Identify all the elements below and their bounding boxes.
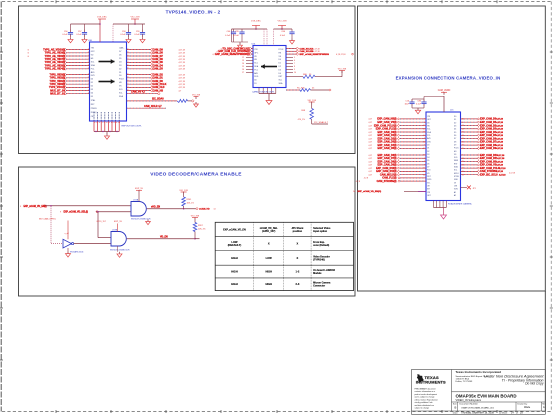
svg-text:4,17: 4,17 xyxy=(368,148,372,150)
svg-text:9: 9 xyxy=(424,119,425,121)
svg-text:10uF: 10uF xyxy=(404,103,409,105)
svg-text:36: 36 xyxy=(462,132,464,134)
svg-text:9: 9 xyxy=(127,68,128,70)
svg-text:4,17,18: 4,17,18 xyxy=(496,160,504,163)
svg-text:XTL: XTL xyxy=(427,182,430,184)
svg-text:4,17,18: 4,17,18 xyxy=(179,59,185,61)
svg-text:D0: D0 xyxy=(119,75,121,77)
svg-text:Sheet: Sheet xyxy=(502,412,508,415)
svg-text:A1: A1 xyxy=(454,191,456,194)
svg-text:4,17,18: 4,17,18 xyxy=(496,147,504,150)
svg-text:D3: D3 xyxy=(119,65,121,67)
svg-text:4,17,18: 4,17,18 xyxy=(179,84,185,86)
svg-text:8: 8 xyxy=(294,66,295,68)
svg-text:nVD_EN: nVD_EN xyxy=(151,206,160,208)
svg-text:PCL: PCL xyxy=(91,68,95,70)
svg-text:16: 16 xyxy=(242,69,244,71)
svg-text:2: 2 xyxy=(88,77,89,79)
svg-text:U17B: U17B xyxy=(112,230,118,232)
svg-text:9: 9 xyxy=(127,89,128,91)
svg-text:4,17: 4,17 xyxy=(368,142,372,144)
svg-text:16: 16 xyxy=(462,138,464,140)
svg-text:2-3: 2-3 xyxy=(296,282,300,286)
svg-text:SN74AHC1G04: SN74AHC1G04 xyxy=(70,250,83,253)
svg-text:SCL: SCL xyxy=(454,170,458,172)
svg-text:GPC: GPC xyxy=(427,195,432,197)
svg-text:4,17,18: 4,17,18 xyxy=(496,144,504,147)
svg-text:D6: D6 xyxy=(119,54,121,56)
svg-text:INV_CAM_OFF(I): INV_CAM_OFF(I) xyxy=(39,218,56,221)
svg-text:9: 9 xyxy=(127,80,128,82)
svg-text:4,17,18: 4,17,18 xyxy=(179,78,185,80)
svg-text:23: 23 xyxy=(462,164,464,166)
svg-text:28: 28 xyxy=(462,135,464,137)
svg-text:VIO_1V8: VIO_1V8 xyxy=(278,21,288,23)
svg-text:VIO_1V8: VIO_1V8 xyxy=(307,100,316,102)
svg-text:39: 39 xyxy=(423,148,425,150)
svg-text:X: X xyxy=(297,242,299,246)
svg-text:39: 39 xyxy=(462,145,464,147)
svg-text:9: 9 xyxy=(127,58,128,60)
svg-text:10K_1%: 10K_1% xyxy=(198,228,206,230)
svg-text:D0: D0 xyxy=(427,144,429,146)
svg-text:19: 19 xyxy=(462,168,464,170)
svg-text:D3: D3 xyxy=(91,89,93,91)
svg-text:4,17: 4,17 xyxy=(368,122,372,124)
svg-text:7: 7 xyxy=(424,145,425,147)
svg-text:input option: input option xyxy=(313,230,328,233)
svg-text:4,17,18: 4,17,18 xyxy=(496,121,504,124)
svg-text:12: 12 xyxy=(462,158,464,160)
svg-text:ROADRUNNER CAMERA: ROADRUNNER CAMERA xyxy=(448,203,472,206)
svg-text:GPC: GPC xyxy=(427,119,432,121)
svg-text:SCL: SCL xyxy=(254,63,258,65)
svg-text:4,17: 4,17 xyxy=(368,125,372,127)
svg-text:2: 2 xyxy=(88,86,89,88)
svg-text:D1: D1 xyxy=(454,119,456,121)
svg-text:EXP_CAM_D9: EXP_CAM_D9 xyxy=(480,147,497,150)
svg-text:VIO_1V8: VIO_1V8 xyxy=(338,68,347,70)
svg-text:10K_1%: 10K_1% xyxy=(187,202,195,204)
svg-text:4,17: 4,17 xyxy=(368,138,372,140)
svg-text:D6: D6 xyxy=(427,163,429,165)
svg-text:PRELIMINARY document: PRELIMINARY document xyxy=(415,387,437,390)
svg-text:4,7,8: 4,7,8 xyxy=(356,181,360,183)
svg-text:9: 9 xyxy=(127,64,128,66)
svg-text:HIGH: HIGH xyxy=(265,282,272,286)
svg-text:CAM_XCLR 4,7: CAM_XCLR 4,7 xyxy=(144,105,162,108)
svg-text:4,17,18: 4,17,18 xyxy=(498,154,506,157)
svg-text:6: 6 xyxy=(294,60,295,62)
svg-text:PCLK: PCLK xyxy=(279,49,285,51)
svg-text:EXP_nCAM_RESET/PWRDN: EXP_nCAM_RESET/PWRDN xyxy=(300,53,330,56)
svg-text:17: 17 xyxy=(423,128,425,130)
svg-text:XTAL: XTAL xyxy=(91,99,96,102)
svg-text:4,17,18: 4,17,18 xyxy=(498,157,506,160)
svg-text:SCL: SCL xyxy=(427,129,431,131)
svg-text:1V8_DEC: 1V8_DEC xyxy=(251,21,261,23)
svg-text:4,17: 4,17 xyxy=(368,129,372,131)
svg-text:4,7,8: 4,7,8 xyxy=(364,178,368,180)
svg-text:4,17: 4,17 xyxy=(368,165,372,167)
svg-text:2: 2 xyxy=(88,93,89,95)
svg-text:D0: D0 xyxy=(254,80,256,82)
svg-text:4,17,18: 4,17,18 xyxy=(179,65,185,67)
svg-text:FLD: FLD xyxy=(119,89,123,91)
svg-text:VD_EN: VD_EN xyxy=(160,236,168,238)
svg-text:4,17,18: 4,17,18 xyxy=(496,131,504,134)
svg-text:D2: D2 xyxy=(279,66,281,68)
svg-text:SCL: SCL xyxy=(119,93,123,95)
svg-text:EXP_5V: EXP_5V xyxy=(135,188,143,190)
svg-text:2: 2 xyxy=(88,83,89,85)
svg-text:2: 2 xyxy=(462,155,463,157)
svg-text:4,17: 4,17 xyxy=(368,158,372,160)
svg-text:4,17,18: 4,17,18 xyxy=(499,173,507,176)
svg-text:D3: D3 xyxy=(279,69,281,71)
svg-text:D5: D5 xyxy=(427,160,429,162)
svg-text:4,17: 4,17 xyxy=(368,168,372,170)
svg-text:19: 19 xyxy=(462,148,464,150)
svg-text:PCLK: PCLK xyxy=(454,148,459,150)
svg-text:AVD: AVD xyxy=(91,71,95,74)
svg-text:VIO_1V8: VIO_1V8 xyxy=(179,190,188,192)
svg-text:4,17: 4,17 xyxy=(368,145,372,147)
svg-text:REFOUT/DECOUPL: REFOUT/DECOUPL xyxy=(122,125,143,127)
svg-text:VIDEO_IN Subsystem: VIDEO_IN Subsystem xyxy=(456,398,482,402)
svg-text:9: 9 xyxy=(127,48,128,50)
svg-text:0.1uF: 0.1uF xyxy=(62,34,68,36)
svg-text:Document Number: Document Number xyxy=(460,403,479,406)
svg-text:EXPANSION CONNECTION CAMERA_VI: EXPANSION CONNECTION CAMERA_VIDEO_IN xyxy=(396,76,501,81)
svg-text:WEN: WEN xyxy=(454,160,459,162)
svg-text:14: 14 xyxy=(214,209,216,211)
svg-text:HIGH: HIGH xyxy=(231,270,238,274)
svg-text:1-2: 1-2 xyxy=(296,270,300,274)
svg-text:subject to change: subject to change xyxy=(415,407,429,410)
svg-text:4,17,18: 4,17,18 xyxy=(509,172,515,174)
svg-text:4,7,8: 4,7,8 xyxy=(212,54,216,56)
svg-text:EXP_nCAM_VD_EN(O): EXP_nCAM_VD_EN(O) xyxy=(358,190,382,193)
svg-text:2: 2 xyxy=(88,64,89,66)
svg-text:CAM_AVDD: CAM_AVDD xyxy=(438,89,451,92)
svg-text:D5: D5 xyxy=(119,58,121,60)
svg-text:0.1uF: 0.1uF xyxy=(120,34,126,36)
svg-text:VIO_1V8: VIO_1V8 xyxy=(131,17,141,19)
svg-text:I2C_SDA0 4,7: I2C_SDA0 4,7 xyxy=(314,121,329,124)
svg-text:15: 15 xyxy=(423,168,425,170)
svg-text:4,17,18: 4,17,18 xyxy=(179,49,185,51)
svg-text:1V8: 1V8 xyxy=(454,186,457,188)
svg-text:4,17,18: 4,17,18 xyxy=(499,167,507,170)
svg-text:GPC: GPC xyxy=(254,52,259,54)
svg-text:MUX_BT_S1: MUX_BT_S1 xyxy=(50,93,65,96)
svg-text:15: 15 xyxy=(242,66,244,68)
svg-text:JP1: JP1 xyxy=(473,188,476,190)
svg-text:4,17: 4,17 xyxy=(368,171,372,173)
svg-text:CAM_HS: CAM_HS xyxy=(153,89,164,92)
svg-text:29: 29 xyxy=(462,161,464,163)
svg-text:CAM_D3: CAM_D3 xyxy=(153,68,164,71)
svg-text:D5: D5 xyxy=(91,96,93,98)
svg-text:4,17,18: 4,17,18 xyxy=(496,124,504,127)
svg-text:4,17,18: 4,17,18 xyxy=(496,141,504,144)
svg-text:CAM_XCLKA: CAM_XCLKA xyxy=(300,47,314,50)
svg-text:position: position xyxy=(293,230,303,233)
svg-text:GPIO_157: GPIO_157 xyxy=(96,221,106,223)
svg-text:37: 37 xyxy=(462,125,464,127)
svg-text:A2: A2 xyxy=(454,194,456,197)
svg-text:LOW: LOW xyxy=(266,256,273,260)
svg-text:u_off: u_off xyxy=(65,233,70,235)
svg-text:B: B xyxy=(455,406,457,410)
svg-text:HIGH: HIGH xyxy=(231,282,238,286)
svg-text:VIDEO DECODER/CAMERA ENABLE: VIDEO DECODER/CAMERA ENABLE xyxy=(150,172,242,178)
svg-text:4,17: 4,17 xyxy=(368,155,372,157)
svg-text:14: 14 xyxy=(462,128,464,130)
svg-text:GND: GND xyxy=(454,179,459,181)
svg-text:3: 3 xyxy=(424,122,425,124)
svg-text:Thursday, September 18, 2008: Thursday, September 18, 2008 xyxy=(461,412,494,415)
svg-text:16: 16 xyxy=(423,132,425,134)
svg-text:4,17,18: 4,17,18 xyxy=(313,51,319,53)
svg-text:VIO_1V8: VIO_1V8 xyxy=(192,94,201,96)
svg-text:4,17: 4,17 xyxy=(368,174,372,176)
svg-text:0.1uF: 0.1uF xyxy=(134,34,140,36)
svg-text:EXP_5V: EXP_5V xyxy=(114,221,122,223)
svg-text:2: 2 xyxy=(88,61,89,63)
svg-text:strictly prohibited. Info: strictly prohibited. Info xyxy=(415,401,433,404)
svg-text:9: 9 xyxy=(127,52,128,54)
svg-text:SN74LVC2G08DCUR: SN74LVC2G08DCUR xyxy=(110,250,130,252)
svg-text:Module: Module xyxy=(313,272,322,275)
svg-text:DVD: DVD xyxy=(254,76,259,78)
svg-text:9: 9 xyxy=(127,73,128,75)
svg-text:D4: D4 xyxy=(91,93,93,95)
svg-text:4,17: 4,17 xyxy=(368,132,372,134)
svg-text:INSTRUMENTS: INSTRUMENTS xyxy=(416,380,446,385)
svg-text:PWD: PWD xyxy=(427,179,432,181)
svg-text:D0: D0 xyxy=(454,116,456,118)
svg-text:D1: D1 xyxy=(91,82,93,84)
svg-text:4,7: 4,7 xyxy=(179,90,182,92)
svg-text:PCLK: PCLK xyxy=(119,79,125,81)
svg-text:SCL: SCL xyxy=(91,61,95,63)
svg-text:4,17,18: 4,17,18 xyxy=(179,81,185,83)
svg-text:and data distributed are: and data distributed are xyxy=(415,404,434,407)
svg-text:D4: D4 xyxy=(279,73,281,75)
svg-text:D2: D2 xyxy=(427,151,429,153)
svg-text:4: 4 xyxy=(424,158,425,160)
svg-text:4,17,18: 4,17,18 xyxy=(179,62,185,64)
svg-text:3: 3 xyxy=(462,122,463,124)
svg-text:10: 10 xyxy=(294,72,296,74)
svg-text:9: 9 xyxy=(127,83,128,85)
svg-text:conn (Default): conn (Default) xyxy=(313,244,329,247)
svg-text:4,17,18: 4,17,18 xyxy=(179,53,185,55)
svg-text:30: 30 xyxy=(462,141,464,143)
svg-text:(GPIO_157): (GPIO_157) xyxy=(262,230,275,233)
svg-text:19: 19 xyxy=(423,125,425,127)
svg-text:4,17,18: 4,17,18 xyxy=(179,56,185,58)
svg-text:D4: D4 xyxy=(119,61,121,63)
svg-text:X: X xyxy=(268,242,270,246)
svg-text:5: 5 xyxy=(294,57,295,59)
svg-text:D0: D0 xyxy=(91,79,93,81)
svg-text:4,17,18: 4,17,18 xyxy=(179,74,185,76)
svg-text:4,17: 4,17 xyxy=(368,135,372,137)
svg-text:contains information on a: contains information on a xyxy=(415,390,437,393)
svg-text:2: 2 xyxy=(88,58,89,60)
svg-text:11: 11 xyxy=(462,171,464,173)
svg-text:EXP_nCAM_RESET/PWRDN(I): EXP_nCAM_RESET/PWRDN(I) xyxy=(215,53,249,56)
svg-text:4,17,18: 4,17,18 xyxy=(496,134,504,137)
svg-text:SCL: SCL xyxy=(279,80,283,82)
svg-text:4,17,18: 4,17,18 xyxy=(179,87,185,89)
svg-text:2: 2 xyxy=(88,80,89,82)
svg-text:D2: D2 xyxy=(454,122,456,124)
svg-text:12: 12 xyxy=(242,57,244,59)
svg-text:1V8_DEC: 1V8_DEC xyxy=(97,17,107,19)
svg-text:CAPACITOR/DECOUPL: CAPACITOR/DECOUPL xyxy=(252,91,275,94)
svg-text:17: 17 xyxy=(242,72,244,74)
svg-text:MCLK: MCLK xyxy=(454,173,460,175)
svg-text:GPC: GPC xyxy=(91,51,96,53)
svg-text:D3: D3 xyxy=(427,154,429,156)
svg-text:product under development: product under development xyxy=(415,393,438,396)
svg-text:RC_R45: RC_R45 xyxy=(297,87,306,89)
svg-text:D8: D8 xyxy=(454,141,456,143)
svg-text:D7: D7 xyxy=(427,167,429,169)
svg-text:OMAP35x EVM MAIN BOARD: OMAP35x EVM MAIN BOARD xyxy=(456,393,517,398)
svg-text:PCL: PCL xyxy=(427,135,431,137)
svg-text:10: 10 xyxy=(423,135,425,137)
svg-text:D1: D1 xyxy=(427,148,429,150)
svg-text:14: 14 xyxy=(353,191,355,193)
svg-text:D4: D4 xyxy=(454,129,456,131)
svg-text:D7: D7 xyxy=(119,51,121,53)
svg-text:7: 7 xyxy=(294,63,295,65)
svg-text:Connector: Connector xyxy=(313,285,325,288)
svg-text:EXP_CAM_D5(I): EXP_CAM_D5(I) xyxy=(377,147,396,150)
svg-text:4,17,18: 4,17,18 xyxy=(179,69,185,71)
svg-text:16: 16 xyxy=(423,171,425,173)
svg-text:TVP5146_VIDEO_IN - 2: TVP5146_VIDEO_IN - 2 xyxy=(166,10,221,15)
svg-text:9: 9 xyxy=(294,69,295,71)
svg-text:HIGH: HIGH xyxy=(231,256,238,260)
svg-text:4,17,18: 4,17,18 xyxy=(313,48,319,50)
svg-text:40: 40 xyxy=(462,119,464,121)
svg-text:(TVP5146): (TVP5146) xyxy=(313,258,325,261)
svg-text:4,17,18: 4,17,18 xyxy=(496,118,504,121)
svg-text:Date:: Date: xyxy=(453,412,459,415)
svg-text:D1: D1 xyxy=(254,83,256,85)
svg-text:STRB: STRB xyxy=(454,176,460,178)
svg-text:15: 15 xyxy=(462,174,464,176)
svg-text:VIO_1V8: VIO_1V8 xyxy=(191,215,200,217)
svg-text:DVD: DVD xyxy=(91,75,96,77)
svg-text:D0: D0 xyxy=(279,59,281,61)
svg-text:2: 2 xyxy=(88,52,89,54)
svg-text:OMAP_EVM_MAIN_BOARD_001: OMAP_EVM_MAIN_BOARD_001 xyxy=(461,406,495,409)
svg-text:PWDN: PWDN xyxy=(91,108,97,110)
svg-text:CAM_XCLKB: CAM_XCLKB xyxy=(300,50,314,53)
svg-text:3: 3 xyxy=(424,161,425,163)
svg-text:0.1uF: 0.1uF xyxy=(416,103,422,105)
svg-text:4,17,18: 4,17,18 xyxy=(496,137,504,140)
svg-text:I2C_SDA0: I2C_SDA0 xyxy=(152,98,164,101)
svg-text:EXP_nCAM_VD_EN: EXP_nCAM_VD_EN xyxy=(223,228,246,231)
svg-text:Wade: Wade xyxy=(524,406,531,409)
svg-text:U17A: U17A xyxy=(133,198,139,201)
svg-text:D3: D3 xyxy=(454,125,456,127)
svg-text:4,17,18: 4,17,18 xyxy=(496,128,504,131)
svg-text:AVD: AVD xyxy=(254,72,258,75)
svg-text:14: 14 xyxy=(242,63,244,65)
svg-text:0.1uF: 0.1uF xyxy=(76,34,82,36)
svg-text:9: 9 xyxy=(127,55,128,57)
svg-text:34: 34 xyxy=(423,174,425,176)
svg-text:TVP2_AE_VID4(I): TVP2_AE_VID4(I) xyxy=(45,68,66,71)
svg-text:29: 29 xyxy=(423,155,425,157)
svg-text:2: 2 xyxy=(88,68,89,70)
svg-text:D2: D2 xyxy=(91,86,93,88)
svg-text:(DEFAULT): (DEFAULT) xyxy=(228,243,242,247)
svg-text:9: 9 xyxy=(127,77,128,79)
svg-text:D7: D7 xyxy=(454,138,456,140)
svg-text:PCL: PCL xyxy=(254,69,258,71)
svg-text:0.1uF: 0.1uF xyxy=(225,35,231,37)
svg-text:2: 2 xyxy=(88,48,89,50)
svg-text:D1: D1 xyxy=(119,72,121,74)
svg-text:4,17: 4,17 xyxy=(368,119,372,121)
svg-text:and is subject to change: and is subject to change xyxy=(415,396,435,399)
svg-text:EXP_I2C_SCL0: EXP_I2C_SCL0 xyxy=(480,173,498,176)
svg-text:D1: D1 xyxy=(279,63,281,65)
svg-text:2: 2 xyxy=(88,73,89,75)
svg-text:0.1uF: 0.1uF xyxy=(234,35,240,37)
svg-text:Do Not Copy: Do Not Copy xyxy=(525,381,544,385)
svg-text:36: 36 xyxy=(423,141,425,143)
svg-text:D6: D6 xyxy=(454,135,456,137)
svg-text:EXP_nCAM_VD_SEL(I): EXP_nCAM_VD_SEL(I) xyxy=(64,211,89,214)
svg-text:HIGH: HIGH xyxy=(265,270,272,274)
svg-text:7: 7 xyxy=(424,164,425,166)
svg-text:D4: D4 xyxy=(427,157,429,159)
svg-text:2: 2 xyxy=(88,89,89,91)
svg-text:D9: D9 xyxy=(454,144,456,146)
svg-text:0.1uF: 0.1uF xyxy=(280,35,286,37)
svg-text:without notice. Reproduction: without notice. Reproduction xyxy=(415,398,438,401)
svg-text:9: 9 xyxy=(127,61,128,63)
svg-text:13: 13 xyxy=(242,60,244,62)
svg-text:CAM_VS 4,7: CAM_VS 4,7 xyxy=(131,91,146,94)
svg-text:D5: D5 xyxy=(454,132,456,134)
svg-text:Dallas, TX 75243: Dallas, TX 75243 xyxy=(456,381,474,383)
svg-text:4,7,8,17,18: 4,7,8,17,18 xyxy=(336,54,345,56)
svg-text:D2: D2 xyxy=(119,68,121,70)
svg-text:4,17: 4,17 xyxy=(368,161,372,163)
svg-text:470_1%: 470_1% xyxy=(298,119,306,121)
svg-text:8: 8 xyxy=(424,138,425,140)
svg-text:X: X xyxy=(297,256,299,260)
svg-text:CAM_STROBE(I): CAM_STROBE(I) xyxy=(377,180,397,183)
svg-text:9: 9 xyxy=(127,86,128,88)
svg-text:nCAM_VD: nCAM_VD xyxy=(199,208,210,211)
svg-text:2: 2 xyxy=(88,55,89,57)
